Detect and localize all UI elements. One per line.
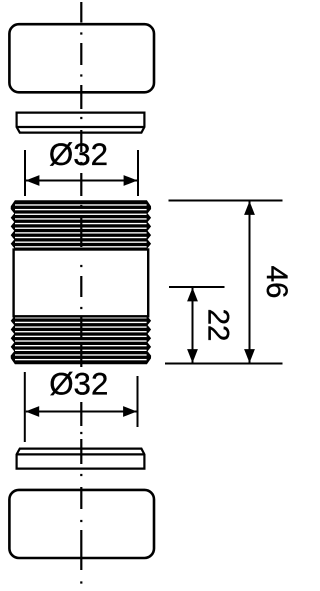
svg-text:22: 22: [202, 309, 235, 342]
svg-text:46: 46: [260, 266, 292, 299]
svg-text:Ø32: Ø32: [49, 367, 108, 402]
svg-text:Ø32: Ø32: [49, 137, 108, 172]
